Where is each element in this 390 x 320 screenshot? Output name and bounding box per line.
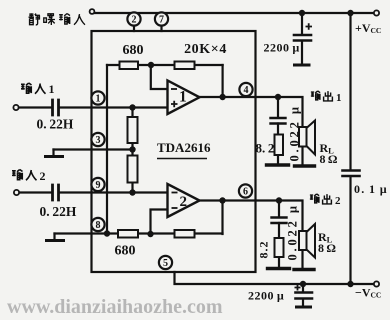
wire out2 zobel drop <box>278 201 280 217</box>
wire top cap lower stub <box>301 42 303 65</box>
node chain-svr <box>129 146 135 152</box>
resistor 8.2 out1 <box>275 135 284 156</box>
char 入 <box>74 14 85 25</box>
svg-text:0. 22H: 0. 22H <box>40 204 77 219</box>
svg-text:1: 1 <box>49 82 55 96</box>
svg-text:2200 µ: 2200 µ <box>248 289 284 303</box>
wire A2 output <box>200 199 280 201</box>
node out2 ext <box>276 197 282 203</box>
resistor bias chain lower 20K <box>128 156 138 183</box>
wire bottom 2200u cap stub <box>302 284 304 292</box>
node out2 fb <box>219 197 225 203</box>
svg-text:1: 1 <box>96 94 101 105</box>
svg-text:6: 6 <box>243 187 248 198</box>
node out1 fb <box>219 94 225 100</box>
svg-text:20K×4: 20K×4 <box>184 42 227 57</box>
capacitor input2 0.22H <box>53 185 59 200</box>
pin 2 <box>127 12 140 25</box>
node chain-in2 <box>129 189 135 195</box>
terminal input1 <box>13 105 18 110</box>
wire A1 feedback drop <box>222 65 224 97</box>
wire internal 680 left leg <box>106 65 108 234</box>
wire pin8 <box>55 232 223 234</box>
node chain-in1 <box>129 104 135 110</box>
ground top cap <box>295 64 310 67</box>
ground zobel2 <box>268 267 290 270</box>
svg-text:680: 680 <box>123 43 144 58</box>
wire A1 inverting input <box>151 65 168 89</box>
svg-text:9: 9 <box>96 180 101 191</box>
node bottom rail right <box>347 281 353 287</box>
wire right rail <box>349 13 351 284</box>
IC box TDA2616 <box>92 31 256 272</box>
svg-text:3: 3 <box>96 135 101 146</box>
wire A1 output <box>200 96 279 98</box>
wire zobel2 mid <box>278 223 280 268</box>
ground speaker2 <box>294 268 314 271</box>
wire pin3 (SVR) <box>54 148 133 150</box>
label 输入2 <box>12 170 37 181</box>
resistor bias chain upper 20K <box>128 117 138 143</box>
svg-text:7: 7 <box>159 15 164 26</box>
svg-text:8.2: 8.2 <box>257 241 271 259</box>
svg-text:0.022 µ: 0.022 µ <box>288 104 302 161</box>
value label RL 8ohm out1 <box>320 141 338 166</box>
svg-text:TDA2616: TDA2616 <box>157 140 211 155</box>
wire input2 <box>19 191 168 193</box>
label 静噪输入 (mute input) <box>29 13 85 25</box>
terminal input2 <box>14 190 19 195</box>
node top rail cap <box>299 10 305 16</box>
resistor 8.2 out2 <box>275 238 284 257</box>
wire out1 zobel drop <box>277 97 279 117</box>
svg-text:1: 1 <box>179 89 187 106</box>
wire out2 to speaker <box>279 201 303 232</box>
svg-text:0.022 µ: 0.022 µ <box>286 203 300 260</box>
wire 680-1 to 20K-1 row <box>107 64 223 66</box>
wire A2 feedback drop <box>221 201 223 235</box>
node 680-2 left <box>104 230 110 236</box>
op-amp U1 <box>168 81 200 115</box>
char 输 <box>59 14 70 25</box>
capacitor 2200u bottom <box>296 293 313 299</box>
wire bottom cap lower stub <box>302 300 304 307</box>
svg-text:8 Ω: 8 Ω <box>320 152 338 166</box>
capacitor 0.022u out1 <box>271 118 286 124</box>
terminal -Vcc <box>374 281 379 286</box>
pin 7 <box>155 12 168 25</box>
pin 1 <box>91 91 104 104</box>
wire A2 inverting input <box>151 210 168 235</box>
svg-text:8 Ω: 8 Ω <box>318 241 336 255</box>
ground input1 <box>52 150 54 157</box>
pin 5 <box>159 256 172 269</box>
svg-text:0. 1 µ: 0. 1 µ <box>354 182 388 196</box>
wire top rail (mute/+Vcc) <box>94 12 374 14</box>
pin circles <box>91 12 252 269</box>
svg-text:2: 2 <box>335 195 341 207</box>
resistor 680 (bottom, R3) <box>118 230 138 238</box>
svg-text:1: 1 <box>336 92 342 104</box>
wire pin5 to -Vcc rail <box>175 272 375 284</box>
svg-text:680: 680 <box>115 244 136 259</box>
node bottom rail cap <box>300 281 306 287</box>
wire pin2 stub <box>133 13 135 31</box>
svg-text:2200 µ: 2200 µ <box>264 41 300 55</box>
node fb1 <box>148 62 154 68</box>
pin 3 <box>91 133 104 146</box>
value label RL 8ohm out2 <box>318 230 336 255</box>
wire zobel1 mid <box>277 124 279 165</box>
wire speaker2 bottom <box>301 250 303 268</box>
op-amp U2 <box>168 184 200 217</box>
resistor 680 (top, R1) <box>120 62 139 70</box>
svg-text:5: 5 <box>163 258 168 269</box>
wire out1 to speaker <box>278 97 303 127</box>
capacitor input1 0.22H <box>53 100 59 115</box>
svg-text:8: 8 <box>96 220 101 231</box>
capacitor 0.1u <box>343 171 360 177</box>
svg-text:2: 2 <box>132 15 137 26</box>
svg-text:www.dianziaihaozhe.com: www.dianziaihaozhe.com <box>7 296 223 318</box>
speaker RL out1 <box>299 121 315 155</box>
ground zobel1 <box>267 163 289 166</box>
node top rail right <box>347 10 353 16</box>
resistor 20K (top, R2) <box>175 62 195 70</box>
svg-text:8. 2: 8. 2 <box>256 141 275 156</box>
part label TDA2616 <box>157 140 211 159</box>
pin 9 <box>91 178 104 191</box>
char 噪 <box>44 14 55 25</box>
plus sign top cap <box>306 23 313 29</box>
ground bottom cap <box>297 306 311 309</box>
node out1 ext <box>275 94 281 100</box>
svg-text:0. 22H: 0. 22H <box>37 117 74 132</box>
node fb2 <box>147 231 153 237</box>
plus sign bottom cap <box>295 285 301 291</box>
pin 8 <box>91 218 104 231</box>
char 静 <box>29 13 40 25</box>
svg-text:2: 2 <box>40 169 46 183</box>
resistor 20K (bottom, R4) <box>175 230 195 238</box>
capacitor 0.022u out2 <box>272 218 287 224</box>
label 输出2 <box>310 194 332 204</box>
wire speaker1 bottom <box>301 147 303 166</box>
speaker RL out2 <box>299 224 315 258</box>
wire bias chain vertical <box>131 108 133 193</box>
label 输入1 <box>21 83 46 94</box>
wire input1 <box>19 106 168 108</box>
capacitor 2200u top <box>294 35 311 41</box>
wire top 2200u cap stub <box>301 13 303 34</box>
label 输出1 <box>311 91 333 101</box>
terminal +Vcc <box>374 10 379 15</box>
wire pin7 stub <box>160 13 162 31</box>
terminal mute input <box>90 9 95 14</box>
pin 6 <box>239 184 252 197</box>
svg-text:2: 2 <box>180 194 188 210</box>
svg-text:4: 4 <box>244 85 249 96</box>
pin 4 <box>239 83 252 96</box>
ground input2 <box>53 234 55 241</box>
ground speaker1 <box>295 164 315 167</box>
